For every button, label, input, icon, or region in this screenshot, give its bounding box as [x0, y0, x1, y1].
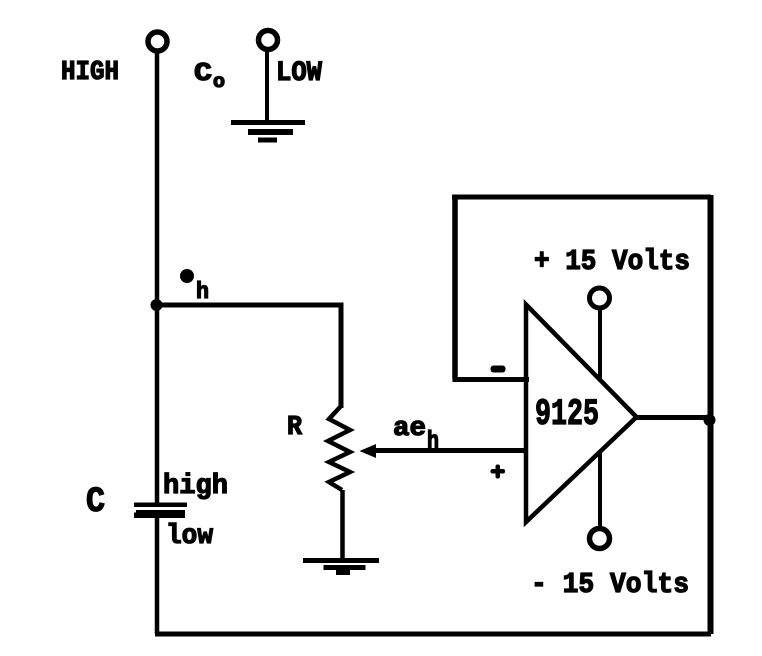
op-amp U1 9125	[526, 305, 637, 523]
junction output node	[704, 414, 716, 426]
terminal +15V	[590, 288, 610, 308]
wire node to potentiometer top	[156, 305, 341, 408]
svg-text:h: h	[196, 279, 209, 305]
svg-text:LOW: LOW	[276, 58, 322, 89]
ground (potentiometer)	[303, 558, 379, 575]
svg-text:high: high	[163, 471, 228, 502]
wire LOW terminal to ground	[265, 50, 269, 122]
wire right feedback rail	[708, 195, 714, 634]
svg-text:o: o	[213, 71, 225, 93]
wire feedback left	[452, 195, 458, 380]
terminal -15V	[590, 529, 610, 549]
terminal HIGH	[148, 32, 167, 51]
wire HIGH terminal down left side (above capacitor)	[155, 52, 160, 503]
potentiometer wiper arrow	[360, 444, 377, 458]
pin - (inverting)	[491, 366, 506, 373]
wire -15V supply	[598, 452, 602, 528]
svg-text:low: low	[166, 521, 213, 552]
svg-text:h: h	[427, 427, 439, 456]
wire feedback top	[452, 195, 711, 200]
wire bottom rail	[155, 632, 711, 637]
svg-text:ae: ae	[393, 414, 426, 444]
svg-text:+ 15 Volts: + 15 Volts	[534, 245, 690, 278]
wire op-amp output	[636, 415, 711, 420]
wire +15V supply	[598, 308, 602, 381]
pin + (non-inverting)	[491, 465, 506, 479]
ground (Co low)	[231, 120, 305, 143]
svg-text:- 15 Volts: - 15 Volts	[531, 568, 689, 601]
wire capacitor bottom to bottom rail	[155, 517, 160, 634]
svg-text:C: C	[86, 482, 105, 522]
potentiometer R zigzag	[328, 406, 350, 490]
svg-text:R: R	[287, 413, 303, 443]
label e_h	[180, 269, 194, 283]
wire feedback to - input	[453, 377, 530, 382]
node e_h	[151, 299, 163, 311]
terminal LOW	[259, 31, 278, 50]
capacitor C	[134, 503, 187, 519]
svg-text:C: C	[194, 58, 212, 88]
wire wiper to op-amp + input	[374, 448, 526, 453]
svg-text:HIGH: HIGH	[61, 58, 119, 88]
wire potentiometer bottom to ground	[340, 490, 345, 560]
svg-text:9125: 9125	[535, 394, 599, 436]
